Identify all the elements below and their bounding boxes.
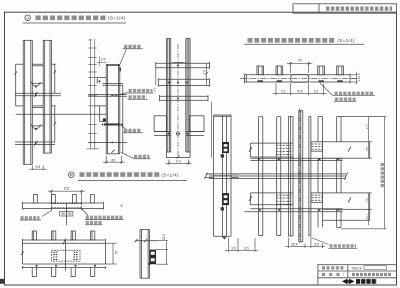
svg-text:7.5: 7.5: [202, 70, 206, 75]
elev bottom dimensions 65.6 / 3.5: [286, 238, 326, 249]
A1 rail screws: [35, 94, 37, 145]
plan label thrust tapping screw M5x12: [335, 92, 374, 95]
svg-text:102: 102: [64, 187, 70, 191]
fold mark bottom-left: [0, 279, 5, 284]
svg-text:22.5: 22.5: [162, 234, 166, 240]
svg-text:70: 70: [366, 147, 370, 151]
B2 bottom posts: [32, 268, 95, 277]
elev upper band hatch left: [276, 145, 292, 154]
A1 lower long rail crossing: [15, 141, 55, 146]
elev far right overall dim label (rotated kanji): [381, 163, 384, 188]
A3 post bottom extensions: [167, 152, 191, 159]
B1 posts up: [34, 195, 95, 204]
A3 bottom dimension 9.2: [166, 160, 192, 165]
B1 joint box dashed: [52, 203, 82, 211]
B1 label thrust tapping screw M5x10: [82, 208, 89, 215]
svg-text:A: A: [26, 15, 29, 20]
svg-text:65.6: 65.6: [291, 243, 297, 247]
B2 center joint dashed box: [52, 250, 81, 261]
svg-text:B: B: [70, 172, 73, 177]
A1 section line across: [16, 113, 107, 115]
elev right hatch box lower: [311, 193, 323, 202]
svg-text:60: 60: [111, 158, 115, 162]
A2 label jiritsu post: [134, 155, 150, 159]
A2 long rail 1 crossing: [88, 95, 127, 97]
section B title text: [80, 172, 161, 177]
svg-text:2.8: 2.8: [357, 77, 361, 81]
A2 mid bracket: [95, 106, 107, 122]
elev right hatch box upper: [311, 142, 323, 151]
B2 top rail: [22, 239, 105, 245]
svg-text:(S=1/4): (S=1/4): [162, 172, 179, 177]
elev right thin post pair 2: [337, 117, 341, 228]
svg-text:81.1: 81.1: [366, 123, 370, 129]
B3 post: [140, 230, 150, 279]
A3 rail 3: [160, 95, 209, 101]
A3 screws: [168, 65, 189, 135]
elev left post 2: [277, 117, 281, 236]
A2 long rail 2 crossing: [88, 141, 127, 143]
V1 crossing rail with breaks: [205, 173, 239, 180]
B2 joint hatch left: [53, 252, 58, 259]
A3 side box left: [154, 116, 171, 136]
plan center sleeve: [291, 75, 309, 83]
elev far right overall dimension: [341, 117, 386, 229]
A2 upper bracket left: [97, 77, 123, 85]
corner section title text: [248, 38, 337, 43]
V1 black connector upper: [221, 142, 229, 158]
logo arrow: [342, 279, 355, 285]
A1 lower bracket box with arc: [32, 124, 44, 130]
B2 left edge break mark: [21, 252, 24, 256]
elev upper band rect left: [249, 143, 293, 157]
B1 rail: [22, 202, 103, 210]
svg-text:28: 28: [120, 204, 124, 208]
plan post 4: [337, 66, 344, 75]
svg-text:3.5: 3.5: [101, 58, 106, 62]
A1 upper long rail crossing: [15, 92, 61, 97]
svg-text:73: 73: [366, 198, 370, 202]
B3 right dimension 22.5: [151, 241, 168, 265]
elev corner joint label: [311, 238, 329, 245]
elev right rail section lower: [322, 193, 369, 220]
svg-text:3.8: 3.8: [357, 73, 361, 77]
elev long crossing rail: [209, 172, 348, 180]
title block row2 right: TAF3 model name: [352, 273, 392, 276]
A1 left dimension line: [15, 64, 24, 106]
V1 bottom dimensions 3.5 6.5: [225, 238, 258, 252]
plan post 3: [318, 66, 325, 75]
A1 right post: [43, 40, 51, 153]
A1 upper rail between posts: [32, 64, 43, 66]
elev right thin post pair 1: [318, 117, 322, 228]
A2 upper right screw blob: [119, 68, 121, 72]
V1 inner post: [222, 116, 226, 236]
A3 center screw circle at shelf: [176, 132, 179, 135]
A3 left dimension: [155, 69, 157, 86]
plan main rail: [245, 74, 351, 84]
A3 left post: [167, 39, 171, 153]
elev rail line below lower band: [245, 209, 343, 212]
elev column center dash-dot: [299, 108, 301, 243]
svg-text:35: 35: [68, 212, 72, 216]
A1 lower rail between posts: [32, 106, 43, 108]
B2 bottom rail: [22, 266, 105, 269]
elev right dimension chain 70 / 73: [368, 117, 372, 226]
title block row1 left: model code label: [322, 266, 344, 269]
svg-text:9.2: 9.2: [176, 160, 181, 164]
B1 dimension 102: [48, 190, 85, 203]
A3 rail 1 with arched top: [156, 62, 210, 69]
A1 upper bracket box with arc: [32, 82, 44, 88]
A2 top dimension 3.5: [97, 56, 107, 66]
A2 label ukekanagu upper: [124, 45, 142, 49]
svg-text:5.2: 5.2: [281, 90, 286, 94]
A2 label thrust screw M6x70 leader: [113, 93, 128, 97]
elev lower band hatch left: [276, 195, 292, 204]
B2 screws on lower rail: [36, 265, 97, 267]
section A header circle: [25, 15, 31, 21]
plan post screws on rail: [258, 80, 343, 82]
section A title text: [36, 15, 108, 20]
A2 label thrust screw M6x70: [129, 89, 153, 93]
plan dimension 79 above: [287, 62, 312, 73]
B3 black connector: [149, 250, 156, 265]
svg-text:79: 79: [298, 59, 302, 63]
A2 dark truss screw with tips: [102, 123, 123, 126]
svg-text:9.2: 9.2: [153, 87, 157, 92]
B2 body band: [22, 243, 105, 264]
svg-text:TAF3-: TAF3-: [351, 266, 364, 270]
B2 center vertical line: [65, 240, 67, 271]
svg-text:(S=1/4): (S=1/4): [338, 38, 355, 43]
V1 black connector lower: [221, 193, 229, 210]
A1 left post: [23, 40, 32, 164]
svg-text:3.5: 3.5: [314, 243, 319, 247]
corner section title underline: [244, 43, 364, 45]
A2 mid bracket black clip: [103, 118, 106, 121]
elev rail screws: [258, 158, 339, 211]
plan label thrust tapping screw M5x12 leader: [320, 83, 333, 95]
elev right rail section upper: [322, 142, 369, 158]
B1 label straight joint: [42, 211, 52, 217]
svg-text:3.5: 3.5: [231, 247, 236, 251]
section A title underline: [23, 22, 126, 24]
A2 left dimension chain: [86, 39, 99, 149]
B1 center line down: [66, 203, 68, 226]
A2 channel attachment line: [122, 85, 124, 154]
elev rail line below upper band: [250, 158, 342, 160]
A3 side box right: [186, 116, 204, 136]
svg-text:5.2: 5.2: [314, 90, 319, 94]
A3 right dimension 75: [205, 63, 209, 85]
elev corner column cluster: [288, 111, 311, 242]
plan post 1: [257, 66, 264, 75]
plan right end dimensions: [350, 72, 358, 85]
A2 label ukekanagu lower leader: [121, 126, 128, 131]
svg-text:81.1: 81.1: [366, 213, 370, 219]
elev left post 1: [259, 117, 263, 236]
section B title underline: [78, 180, 187, 182]
V1 inner post tail: [222, 236, 226, 239]
A2 label jiritsu post leader: [121, 152, 133, 158]
title box text TAF3: [326, 7, 392, 11]
A1 bottom dimension 9.5: [29, 166, 47, 171]
A3 right post: [186, 39, 190, 153]
A3 band 2: [158, 78, 209, 86]
A2 upper bracket black clip: [99, 80, 101, 82]
title box top-right: [293, 4, 397, 13]
section B header circle: [69, 172, 75, 178]
svg-text:79.6: 79.6: [297, 90, 303, 94]
logo company name: [356, 279, 377, 284]
A2 label ukekanagu lower: [124, 129, 142, 133]
svg-text:(S=1/4): (S=1/4): [108, 16, 125, 21]
title block row2 left: product name label: [322, 273, 344, 276]
A3 right outer extension line: [210, 102, 212, 158]
elev lower band rect left: [249, 193, 293, 205]
B2 top posts: [32, 231, 95, 240]
svg-text:70: 70: [114, 251, 118, 255]
A1 right dimension line: [52, 64, 57, 142]
plan center dash-dot line: [240, 77, 356, 79]
B2 joint hatch right: [74, 252, 79, 259]
svg-text:35: 35: [61, 212, 65, 216]
B1 boxed labels 35 35: [60, 211, 73, 216]
V1 outer channel: [214, 115, 231, 236]
A3 center dash-dot line: [177, 44, 179, 159]
plan dimensions below 5.2 / 79.6 / 5.2: [273, 83, 327, 95]
title block row1 empty box: [364, 266, 387, 270]
plan post 2: [276, 66, 283, 75]
A2 bottom dimension 60: [103, 156, 125, 164]
svg-text:9.5: 9.5: [35, 165, 40, 169]
A2 label leader ukekanagu upper: [120, 49, 127, 64]
A2 post channel: [106, 64, 120, 153]
svg-text:6.5: 6.5: [244, 247, 249, 251]
A2 rail screws: [111, 94, 113, 143]
B3 crossing line with break: [135, 239, 158, 242]
B2 right dimension 70: [106, 243, 117, 264]
